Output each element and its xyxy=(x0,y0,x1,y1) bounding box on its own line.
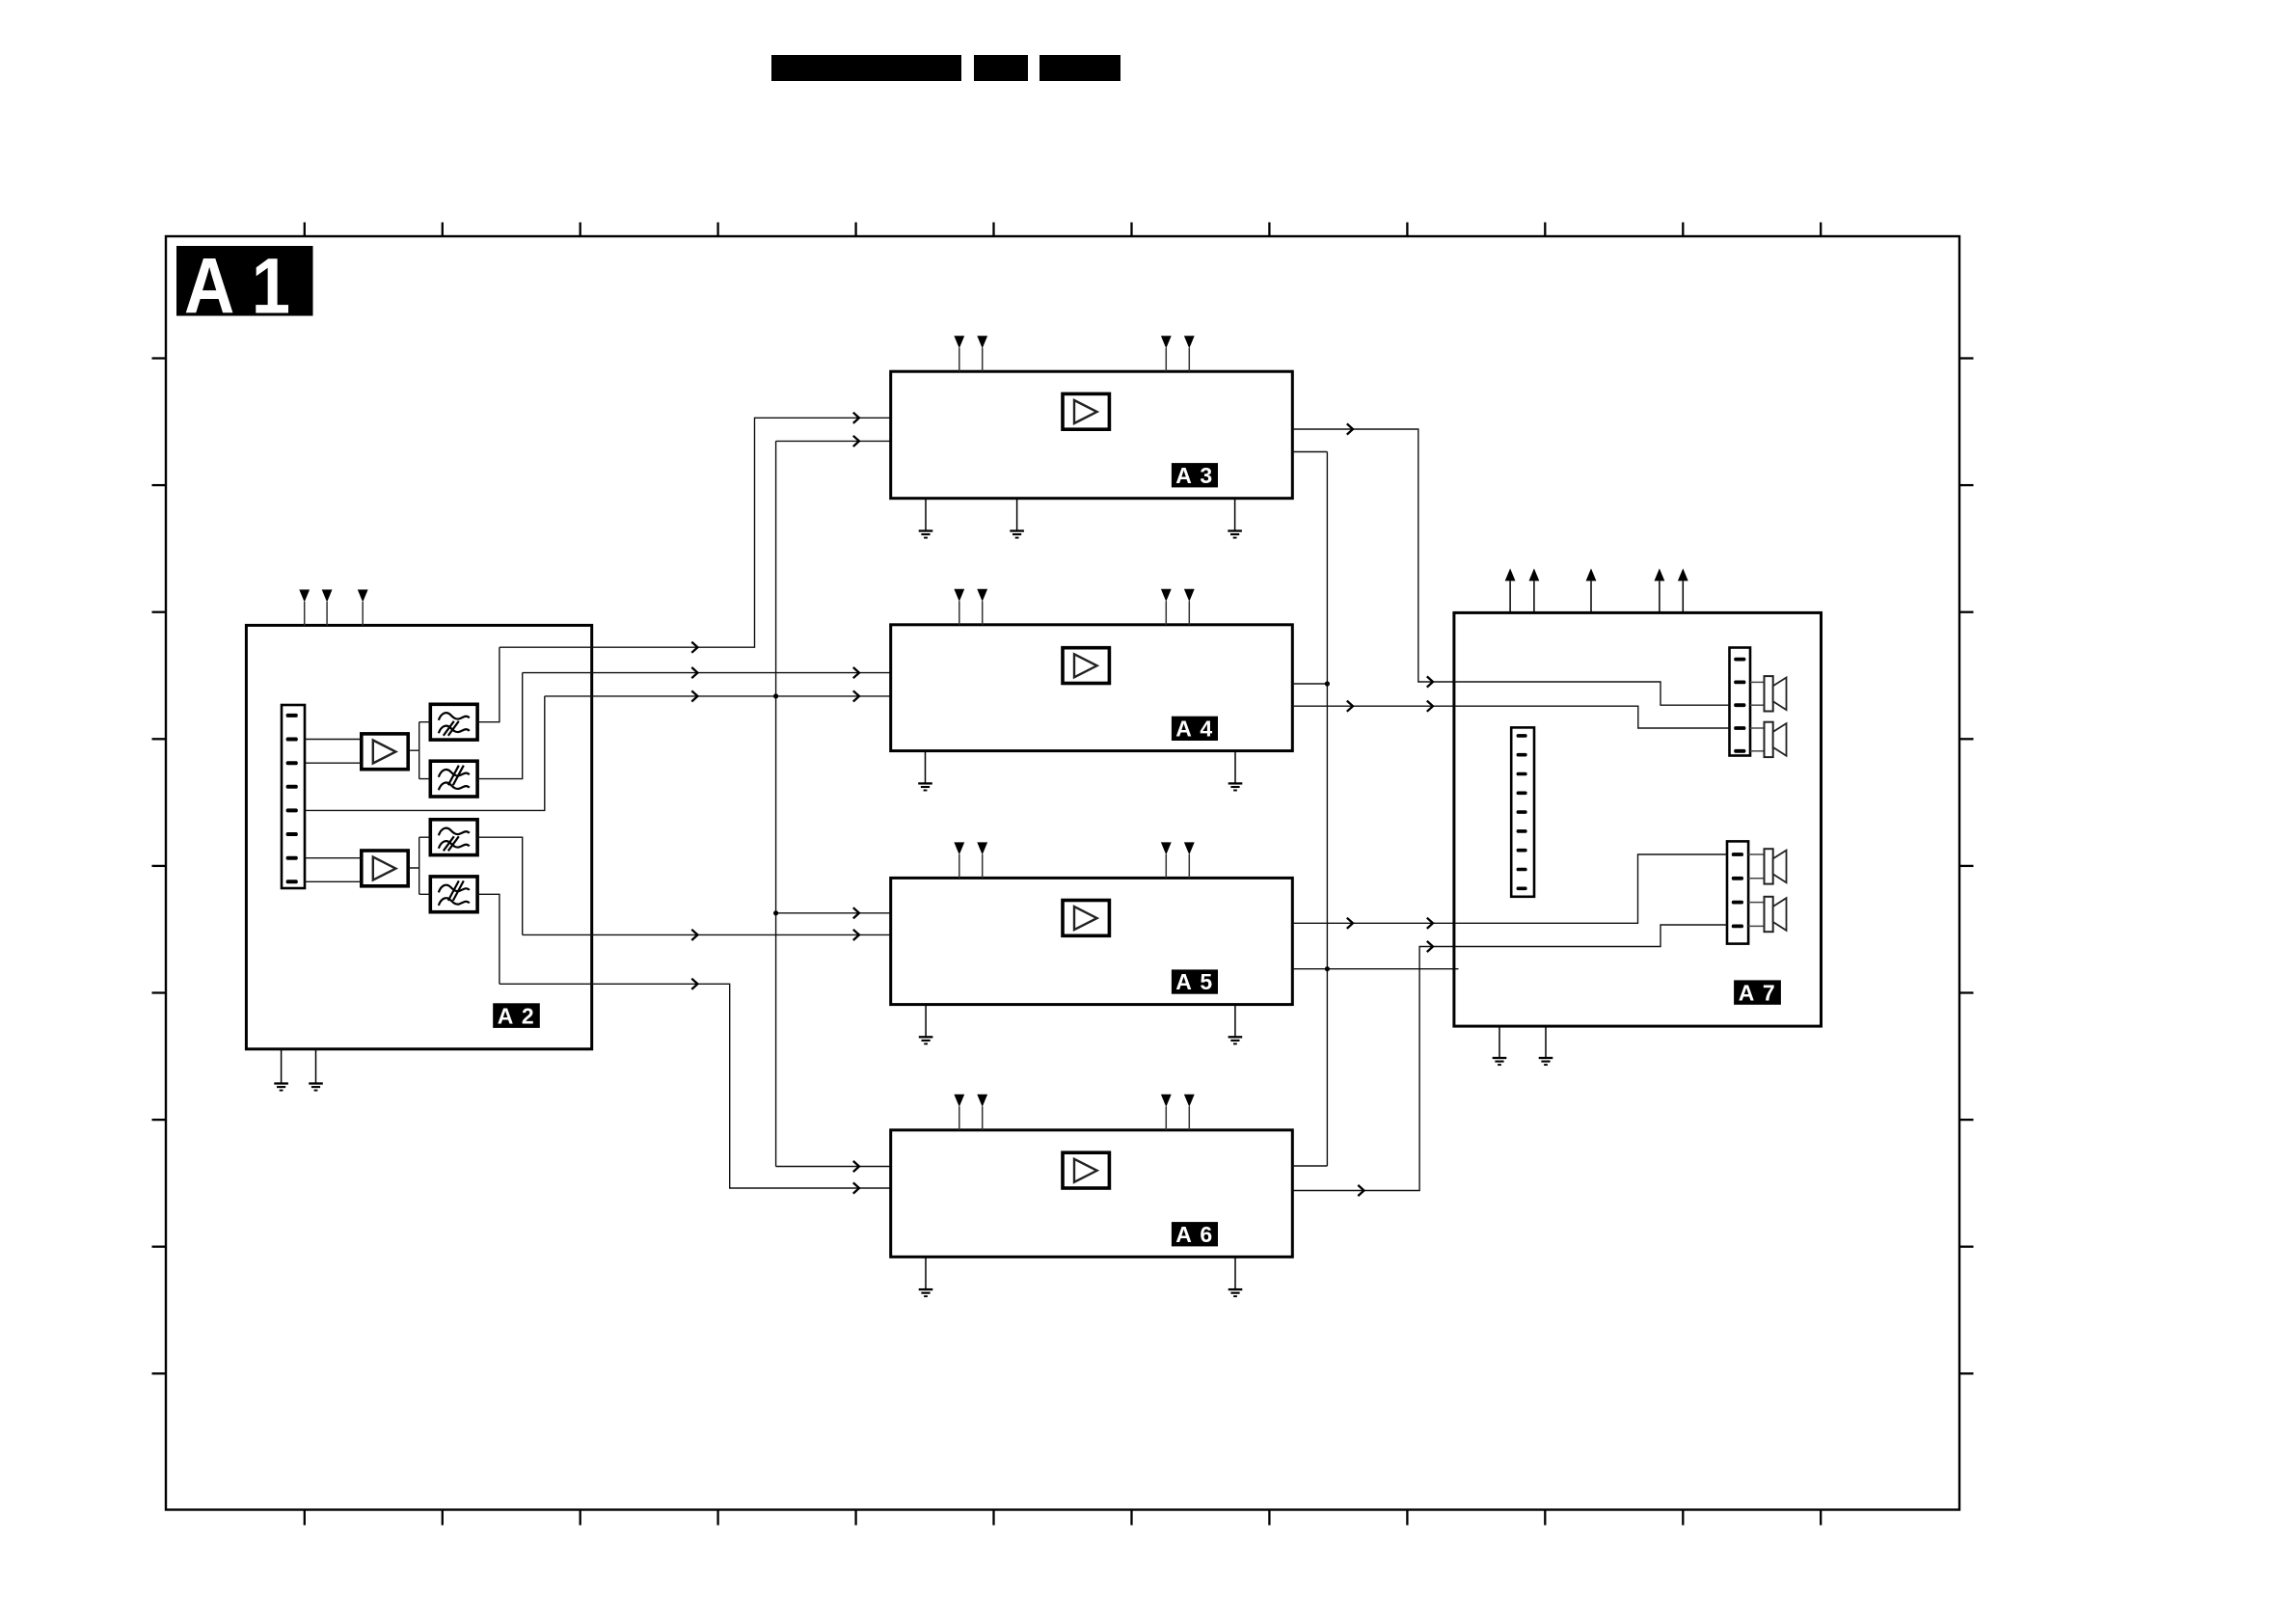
block A3 box xyxy=(891,371,1293,499)
amplifier U2 in A2 xyxy=(362,851,408,886)
wire J1 pin2 to U1 xyxy=(305,739,362,741)
A3 top arrow 2 xyxy=(977,336,987,348)
A5 top arrow 1 xyxy=(954,842,964,854)
junction bus2/A5 out2 xyxy=(1325,966,1330,971)
frame tick marks top xyxy=(305,223,1821,237)
A6 top arrow 4 xyxy=(1184,1095,1195,1107)
bus2 vertical (shared line) xyxy=(1326,452,1328,1167)
wire A2 out1 to A3 in1 xyxy=(499,418,891,647)
ground below A6 right xyxy=(1234,1257,1236,1289)
top redaction bar 1 xyxy=(771,55,961,81)
wire bus to A6 in1 xyxy=(776,1166,891,1168)
ground below A3 right xyxy=(1234,499,1236,531)
ground below A3 left xyxy=(925,499,927,531)
block A4 box xyxy=(891,625,1293,751)
wire A2 out3 common bus row xyxy=(545,695,891,697)
A4 top arrow 2 xyxy=(977,589,987,602)
label A5 xyxy=(1172,969,1218,993)
wire A7 in1 to J3 pin3 xyxy=(1454,682,1730,705)
ground below A6 left xyxy=(925,1257,927,1289)
A5 top arrow 4 xyxy=(1184,842,1195,854)
wire A2 out2 to A4 in1 xyxy=(523,672,891,674)
block A7 box xyxy=(1454,612,1822,1026)
frame tick marks right xyxy=(1959,359,1974,1374)
wire A6 out1 to bus2 end xyxy=(1292,1165,1327,1167)
filter FL2 (low-pass) xyxy=(430,761,477,797)
A2 input arrow 1 xyxy=(299,589,310,602)
svg-text:A 4: A 4 xyxy=(1175,717,1213,742)
wire U1 output node xyxy=(409,722,431,779)
wire A5 out1 to A7 in3 xyxy=(1292,922,1454,924)
wire J1 pin5 direct xyxy=(305,696,545,811)
speaker LS2 stub wires xyxy=(1750,727,1765,729)
wire FL2 output xyxy=(477,673,523,779)
amplifier icon in A4 xyxy=(1063,648,1109,684)
ground below A7 right xyxy=(1545,1026,1547,1058)
frame tick marks left xyxy=(152,359,167,1374)
svg-text:A 1: A 1 xyxy=(184,243,290,331)
A7 top output arrow 5 xyxy=(1678,568,1688,581)
wire FL4 output xyxy=(477,894,499,984)
frame tick marks bottom xyxy=(305,1510,1821,1526)
A7 top output arrow 4 xyxy=(1655,568,1665,581)
ground below A5 left xyxy=(925,1005,927,1038)
ground below A4 right xyxy=(1234,751,1236,784)
wire J1 pin3 to U1 xyxy=(305,762,362,764)
speaker LS2 xyxy=(1765,722,1773,757)
A6 top arrow 1 xyxy=(954,1095,964,1107)
ground below A4 left xyxy=(925,751,927,784)
connector J3 in A7 (5-pin, upper speakers) xyxy=(1730,648,1751,756)
ground below A2 left xyxy=(281,1049,283,1084)
wire bus to A3 in2 xyxy=(776,440,891,442)
junction bus/A4 row xyxy=(773,693,778,698)
A3 top arrow 1 xyxy=(954,336,964,348)
wire J1 pin7 to U2 xyxy=(305,857,362,859)
A5 top arrow 2 xyxy=(977,842,987,854)
wire FL1 output xyxy=(477,647,499,722)
sheet label A1 xyxy=(176,246,313,316)
label A6 xyxy=(1172,1222,1218,1246)
wire A7 in3 to J4 pin1 xyxy=(1454,854,1727,923)
amplifier U1 in A2 xyxy=(362,734,408,770)
wire A3 out1 to A7 in1 xyxy=(1292,429,1454,682)
wire bus to A5 in1 xyxy=(776,912,891,914)
speaker LS4 stub wires xyxy=(1748,902,1764,904)
ground below A5 right xyxy=(1234,1005,1236,1038)
A6 top arrow 3 xyxy=(1161,1095,1172,1107)
wire A4 out1 to bus2 xyxy=(1292,683,1327,685)
A2 input arrow 2 xyxy=(322,589,333,602)
svg-text:A 5: A 5 xyxy=(1175,969,1213,994)
block A6 box xyxy=(891,1130,1293,1258)
A4 top arrow 3 xyxy=(1161,589,1172,602)
filter FL3 (high-pass) xyxy=(430,820,477,855)
A4 top arrow 4 xyxy=(1184,589,1195,602)
wire A7 in2 to J3 pin4 xyxy=(1454,706,1730,728)
connector J2 in A7 (9-pin) xyxy=(1511,727,1534,896)
svg-text:A 6: A 6 xyxy=(1175,1222,1213,1247)
svg-text:A 2: A 2 xyxy=(498,1003,535,1028)
amplifier icon in A5 xyxy=(1063,901,1109,936)
top redaction bar 2 xyxy=(974,55,1028,81)
block A5 box xyxy=(891,878,1293,1004)
sheet border frame xyxy=(166,236,1959,1510)
speaker LS4 xyxy=(1765,897,1773,932)
svg-text:A 3: A 3 xyxy=(1175,463,1213,488)
amplifier icon in A3 xyxy=(1063,393,1109,429)
filter FL1 (high-pass) xyxy=(430,704,477,740)
block A2 box xyxy=(246,625,591,1048)
filter FL4 (low-pass) xyxy=(430,877,477,912)
label A2 xyxy=(493,1003,540,1028)
A6 top arrow 2 xyxy=(977,1095,987,1107)
speaker LS3 xyxy=(1765,849,1773,883)
A3 top arrow 3 xyxy=(1161,336,1172,348)
junction bus2/A4 out1 xyxy=(1325,681,1330,686)
amplifier icon in A6 xyxy=(1063,1152,1109,1188)
bus vertical (common signal) xyxy=(775,441,777,1166)
wire U2 output node xyxy=(409,837,431,894)
connector J1 in A2 xyxy=(282,705,305,888)
wire A2 out5 to A6 in2 xyxy=(499,984,891,1188)
wire A5 out2 through bus2 into A7 xyxy=(1292,968,1458,970)
wire A4 out2 to A7 in2 xyxy=(1292,705,1454,707)
A4 top arrow 1 xyxy=(954,589,964,602)
svg-text:A 7: A 7 xyxy=(1739,980,1776,1005)
A2 input arrow 3 xyxy=(358,589,368,602)
A7 top output arrow 3 xyxy=(1586,568,1597,581)
A3 top arrow 4 xyxy=(1184,336,1195,348)
speaker LS3 stub wires xyxy=(1748,853,1764,855)
top redaction bar 3 xyxy=(1039,55,1120,81)
A7 top output arrow 1 xyxy=(1505,568,1516,581)
label A4 xyxy=(1172,717,1218,741)
wire A2 out4 to A5 in2 xyxy=(523,934,891,935)
wire A3 out2 to bus2 xyxy=(1292,451,1327,453)
wire J1 pin8 to U2 xyxy=(305,880,362,882)
ground below A2 right xyxy=(315,1049,317,1084)
ground below A7 left xyxy=(1498,1026,1500,1058)
wire FL3 output xyxy=(477,837,523,934)
A7 top output arrow 2 xyxy=(1529,568,1540,581)
connector J4 in A7 (4-pin, lower speakers) xyxy=(1727,841,1748,943)
A5 top arrow 3 xyxy=(1161,842,1172,854)
speaker LS1 stub wires xyxy=(1750,681,1765,683)
wire A6 out2 to A7 in4 xyxy=(1292,947,1454,1191)
label A7 xyxy=(1734,980,1781,1004)
label A3 xyxy=(1172,463,1218,487)
speaker LS1 xyxy=(1765,676,1773,711)
wire A7 in4 to J4 pin4 xyxy=(1454,925,1727,947)
ground below A3 middle xyxy=(1016,499,1018,531)
